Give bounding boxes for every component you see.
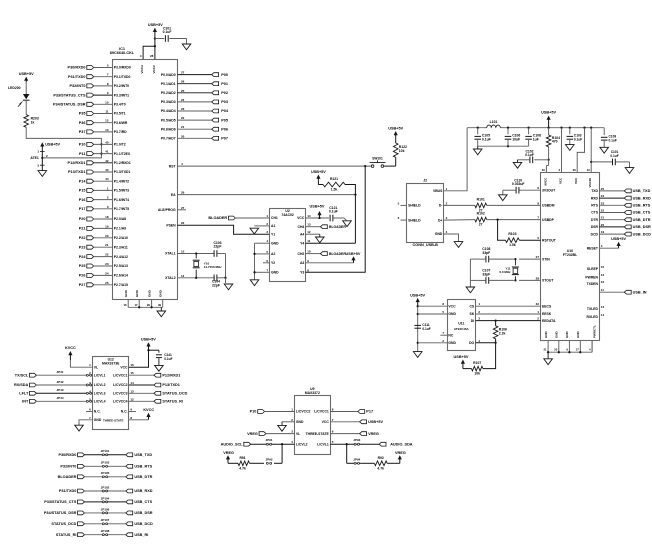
svg-text:P1.4/INT2: P1.4/INT2 [114, 179, 129, 183]
svg-text:15: 15 [181, 250, 185, 254]
svg-text:26: 26 [573, 168, 577, 172]
svg-text:R103: R103 [508, 232, 516, 236]
svg-text:JP92: JP92 [265, 457, 272, 461]
wire U12 GND [79, 420, 92, 425]
svg-text:USB_TXD: USB_TXD [134, 453, 152, 457]
svg-text:P07: P07 [221, 137, 228, 141]
svg-text:21: 21 [543, 348, 547, 352]
svg-text:12: 12 [601, 273, 605, 277]
port pin P32/INT0 [69, 82, 129, 88]
ground (C141) [155, 365, 164, 371]
svg-text:R101: R101 [477, 197, 485, 201]
pin U9.8 L/CVCC1 [314, 408, 333, 414]
pin U11 NC stub [440, 334, 447, 336]
svg-text:CH1: CH1 [271, 216, 278, 220]
svg-text:P25: P25 [79, 264, 86, 268]
svg-text:13: 13 [601, 305, 605, 309]
power symbol USB+5V (RESET) [611, 237, 626, 248]
svg-text:D+: D+ [438, 218, 442, 222]
svg-text:P03: P03 [221, 100, 228, 104]
svg-text:STATUS_RI: STATUS_RI [162, 400, 183, 404]
svg-text:USB_DTR: USB_DTR [633, 218, 651, 222]
pin U10 SLEEP [587, 265, 605, 271]
svg-text:RST: RST [169, 164, 177, 168]
tag P10 (U9) [250, 410, 295, 414]
svg-text:USB_DSR: USB_DSR [134, 511, 152, 515]
resistor R121 1.5k [318, 177, 345, 192]
svg-text:PSEN: PSEN [166, 223, 176, 227]
svg-text:CONN_USB-B: CONN_USB-B [413, 243, 439, 247]
svg-text:USB_CTS: USB_CTS [633, 211, 651, 215]
svg-text:22: 22 [181, 221, 185, 225]
wire U2 Y3 to RST [306, 166, 366, 272]
wire RST net [169, 162, 371, 168]
svg-text:11: 11 [105, 110, 109, 114]
power symbol USB+5V (EEPROM) [410, 293, 425, 306]
ground (IC1) [157, 307, 166, 317]
port pin P24 [79, 253, 128, 259]
svg-text:USB+5V: USB+5V [388, 126, 403, 130]
svg-text:L/CVL1: L/CVL1 [94, 373, 106, 377]
port pin P34/STATUS_DSR [53, 100, 126, 106]
pin U2.1 CH1 [266, 214, 278, 220]
svg-text:P3.1/TXD0: P3.1/TXD0 [114, 75, 131, 79]
IC U12 MAX3373E [93, 357, 129, 430]
wire U12 three-state [129, 419, 149, 421]
svg-text:USB+5V: USB+5V [148, 23, 163, 27]
svg-text:KVCC: KVCC [65, 346, 76, 350]
svg-text:N.C.: N.C. [121, 410, 128, 414]
svg-text:R107: R107 [473, 361, 481, 365]
svg-text:4.7k: 4.7k [377, 467, 384, 471]
power symbol USB+5V (U2 A3) [346, 252, 361, 263]
pin U9.7 VCC [322, 418, 334, 424]
svg-text:P34/STATUS_DSR: P34/STATUS_DSR [53, 103, 86, 107]
wire LED cathode to R203 [25, 100, 27, 114]
wire U2 Y4 to EA pull-up [306, 242, 356, 244]
svg-text:USB_TXD: USB_TXD [633, 189, 651, 193]
svg-text:P35: P35 [79, 112, 86, 116]
svg-text:R121: R121 [330, 177, 338, 181]
svg-text:LFLT: LFLT [19, 392, 29, 396]
svg-text:VREG: VREG [368, 432, 379, 436]
connector J2 CONN_USB-B [398, 178, 448, 247]
ground (U2 gnd) [250, 280, 259, 286]
wire xtal caps to ground [469, 259, 471, 287]
pin U12.2 L/CVL1 [89, 371, 105, 377]
svg-text:R91: R91 [239, 456, 245, 460]
wire AUDIO_SDA branch [346, 444, 348, 463]
svg-text:L/CVCC1: L/CVCC1 [113, 373, 128, 377]
IC IC1 89C6640 [110, 47, 178, 300]
svg-text:44: 44 [105, 177, 109, 181]
svg-text:XTAL1: XTAL1 [165, 252, 176, 256]
wire R121 to EA/Y4 [345, 185, 355, 244]
svg-text:KVCC: KVCC [143, 408, 154, 412]
port pin P00 [161, 71, 228, 77]
capacitor C104 22pF [212, 275, 226, 288]
wire AUDIO_SCL branch [281, 444, 283, 463]
port pin P37 [79, 128, 127, 134]
svg-text:GND: GND [147, 289, 151, 297]
svg-text:USB_DTR: USB_DTR [134, 475, 152, 479]
svg-text:CH2: CH2 [298, 252, 305, 256]
svg-text:GND: GND [448, 341, 456, 345]
tag AUDIO_SDA / jumper JP93 [330, 438, 413, 446]
svg-text:CH4: CH4 [298, 225, 305, 229]
wire U9 GND [282, 421, 295, 423]
svg-text:P31/TXD0: P31/TXD0 [68, 75, 86, 79]
svg-text:RXD: RXD [591, 196, 599, 200]
svg-text:6.0 MHz: 6.0 MHz [499, 270, 511, 274]
svg-text:VCCIO: VCCIO [588, 177, 592, 187]
port pin P25 [79, 262, 128, 268]
svg-text:17: 17 [134, 303, 138, 307]
svg-text:0.1uF: 0.1uF [329, 210, 338, 214]
wire EEPROM GND2 [418, 342, 447, 344]
ground (U2 A1) [250, 228, 259, 234]
svg-text:23: 23 [181, 107, 185, 111]
ground (EEPROM rail) [413, 352, 422, 358]
pin U12.1 VL [89, 363, 98, 369]
pin U10 RXLED [587, 313, 605, 319]
wire XTIN row [514, 258, 540, 260]
ground (J2) [454, 242, 463, 248]
svg-text:VBUS: VBUS [433, 189, 443, 193]
svg-text:P05: P05 [221, 118, 228, 122]
capacitor C108b 33pF [470, 247, 514, 262]
connector ATE1 [30, 149, 48, 171]
svg-text:P2.1/A9: P2.1/A9 [114, 227, 126, 231]
tag P12/RXD1 [129, 373, 180, 377]
svg-text:L/CVCC4: L/CVCC4 [113, 400, 128, 404]
svg-text:VREG: VREG [247, 432, 258, 436]
svg-text:EESK: EESK [542, 312, 552, 316]
svg-text:VCC: VCC [297, 216, 305, 220]
wire J2 GND [444, 234, 459, 242]
svg-text:P15: P15 [79, 189, 86, 193]
resistor R102 27 [444, 212, 541, 227]
pin GND group IC1 [123, 289, 162, 307]
svg-text:L/CVL3: L/CVL3 [94, 392, 106, 396]
svg-text:LED200: LED200 [8, 86, 21, 90]
svg-text:P2.5/A13: P2.5/A13 [114, 264, 128, 268]
pin U2.6 Y2 [266, 259, 275, 265]
svg-text:VCC2: VCC2 [152, 65, 156, 74]
svg-text:USB_RXD: USB_RXD [134, 489, 152, 493]
pin U2.2 A1 [266, 222, 275, 228]
capacitor C141 0.1uF [156, 350, 173, 365]
svg-text:1uF: 1uF [533, 137, 539, 141]
svg-text:P3.7/RD: P3.7/RD [114, 130, 127, 134]
svg-text:JP94: JP94 [353, 457, 360, 461]
jumper JP107 (STATUS_DCD to USB_DCD) [51, 518, 153, 526]
power symbol USB+5V (U12 VCC) [141, 338, 156, 351]
svg-text:P0.6/AD6: P0.6/AD6 [161, 127, 176, 131]
svg-text:USB_RI: USB_RI [134, 533, 148, 537]
svg-text:1.5k: 1.5k [331, 188, 338, 192]
svg-text:P11: P11 [79, 152, 86, 156]
svg-text:USB+5V: USB+5V [611, 237, 626, 241]
pin U10 XTOUT [536, 276, 555, 282]
pin U2.10 CH2 [298, 250, 311, 256]
svg-text:USB+5V: USB+5V [310, 204, 325, 208]
svg-text:P10: P10 [79, 143, 86, 147]
power symbol USB+5V (R122) [388, 126, 403, 143]
svg-text:JP43: JP43 [56, 388, 63, 392]
tag VREG (U9 TS) [330, 432, 379, 436]
svg-text:P0.3/AD3: P0.3/AD3 [161, 100, 176, 104]
svg-text:10: 10 [307, 250, 311, 254]
wire VCC pin 3 [558, 128, 561, 173]
ground (C101) [182, 44, 191, 50]
svg-text:26: 26 [181, 80, 185, 84]
pin U9.5 L/CVL1 [317, 440, 334, 446]
port pin P17 [79, 205, 129, 211]
pin U9.3 VL [291, 430, 300, 436]
svg-text:USB+5V: USB+5V [454, 355, 469, 359]
svg-text:P22: P22 [79, 236, 86, 240]
capacitor C107b 0.1uF (VCCIO) [591, 150, 629, 168]
svg-text:ALE/PROG: ALE/PROG [158, 208, 176, 212]
svg-text:L/CVCC2: L/CVCC2 [113, 383, 128, 387]
svg-text:EECS: EECS [542, 304, 552, 308]
svg-text:SK: SK [469, 312, 474, 316]
power symbol KVCC (U12 VL) [65, 346, 76, 360]
svg-text:21: 21 [105, 243, 109, 247]
crystal Y10 14.7456 MHz [193, 254, 222, 278]
svg-text:22: 22 [181, 116, 185, 120]
svg-text:AUDIO_SCL: AUDIO_SCL [221, 442, 244, 446]
pin U10 RXD [591, 194, 605, 200]
wire EEPROM GND1 [418, 313, 447, 315]
port pin P31/TXD0 [68, 73, 131, 79]
svg-text:P2.0/A8: P2.0/A8 [114, 217, 126, 221]
svg-text:PWREN: PWREN [585, 275, 598, 279]
svg-text:14: 14 [601, 313, 605, 317]
svg-text:0.1uF: 0.1uF [525, 153, 534, 157]
svg-text:74AC02: 74AC02 [281, 213, 294, 217]
svg-text:P23: P23 [79, 245, 86, 249]
svg-text:P0.5/AD5: P0.5/AD5 [161, 118, 176, 122]
svg-text:P12/RXD1: P12/RXD1 [68, 161, 86, 165]
LED LED200 [8, 86, 29, 107]
wire VBUS to rail [444, 128, 467, 191]
ground (C102) [513, 160, 522, 168]
jumper JP106 (P34/STATUS_DSR to USB_DSR) [44, 507, 153, 515]
svg-text:10: 10 [105, 100, 109, 104]
svg-text:20: 20 [181, 134, 185, 138]
svg-text:23: 23 [105, 262, 109, 266]
svg-text:P33/STATUS_CTS: P33/STATUS_CTS [44, 500, 77, 504]
pin U9.6 THREE-STATE [306, 430, 334, 436]
svg-text:DTR: DTR [591, 218, 599, 222]
pin U12.12 L/CVCC4 [113, 397, 134, 403]
svg-text:P00: P00 [221, 73, 228, 77]
svg-text:P33/STATUS_CTS: P33/STATUS_CTS [53, 93, 86, 97]
svg-text:USB+5V: USB+5V [368, 420, 383, 424]
svg-text:CS: CS [469, 304, 474, 308]
svg-text:P31/TXD0: P31/TXD0 [59, 489, 77, 493]
pin U12 NC stub right [129, 411, 136, 413]
ground (crystal) [224, 278, 233, 290]
svg-text:RX/SDA: RX/SDA [14, 383, 29, 387]
svg-text:P0.7/AD7: P0.7/AD7 [161, 137, 176, 141]
power symbol VREG (R92) [395, 451, 406, 464]
capacitor C107 33pF [470, 269, 514, 284]
svg-text:14: 14 [181, 274, 185, 278]
svg-text:0.1uF: 0.1uF [610, 154, 618, 158]
power symbol USB+5V (R107) [454, 355, 469, 368]
wire U2 VCC row [306, 217, 329, 219]
svg-text:JP106: JP106 [101, 507, 110, 511]
svg-text:USB+5V: USB+5V [541, 111, 556, 115]
svg-text:P32/INT0: P32/INT0 [60, 465, 76, 469]
svg-text:P2.4/A12: P2.4/A12 [114, 255, 128, 259]
svg-text:P1.3/TXD1: P1.3/TXD1 [114, 170, 131, 174]
port pin P02 [161, 89, 228, 95]
svg-text:P24: P24 [79, 255, 87, 259]
pin U2.6 Y2 stub [263, 262, 270, 264]
svg-text:40: 40 [105, 140, 109, 144]
pin U9.1 L/CVCC2 [291, 408, 310, 414]
pin GND group U10 [543, 325, 596, 352]
svg-text:VL: VL [94, 365, 98, 369]
svg-text:AT93C46A: AT93C46A [454, 327, 470, 331]
port pin P11 [79, 150, 131, 156]
svg-text:RXLED: RXLED [587, 315, 599, 319]
svg-text:P16: P16 [79, 198, 86, 202]
svg-text:USB_RTS: USB_RTS [134, 465, 152, 469]
power symbol USB+5V (IC1) [148, 23, 163, 59]
wire R203 to P10/P11 column [26, 127, 102, 159]
svg-text:USB_DSR: USB_DSR [633, 225, 651, 229]
wire EEPROM VCC [418, 305, 447, 307]
svg-text:0.1uF: 0.1uF [609, 138, 617, 142]
svg-text:JP104: JP104 [101, 496, 110, 500]
pin U10 DTR [591, 216, 604, 222]
svg-text:USB+5V: USB+5V [346, 252, 361, 256]
tag RX/SDA / jumper JP42 [14, 380, 92, 387]
svg-text:GND: GND [94, 418, 102, 422]
svg-text:P20: P20 [79, 217, 86, 221]
tag USB_RXD [599, 196, 651, 200]
svg-text:30: 30 [542, 168, 546, 172]
ground (ATE1) [38, 171, 47, 177]
pin U10 PWREN [585, 273, 604, 279]
svg-text:24: 24 [105, 271, 109, 275]
svg-text:P2.3/A11: P2.3/A11 [114, 245, 128, 249]
svg-text:41: 41 [105, 150, 109, 154]
port pin P06 [161, 125, 228, 131]
svg-text:JP101: JP101 [101, 449, 110, 453]
power symbol USB+5V (rail) [541, 111, 556, 128]
svg-text:42: 42 [105, 159, 109, 163]
tag BLOADER (U2 pin1) [208, 216, 269, 220]
svg-text:13: 13 [130, 389, 134, 393]
IC U2 74AC02 [270, 209, 306, 282]
svg-text:P1.6/INT4: P1.6/INT4 [114, 198, 129, 202]
svg-text:27: 27 [479, 223, 483, 227]
pin U12.15 L/CVCC1 [113, 371, 134, 377]
svg-text:DSR: DSR [591, 225, 599, 229]
svg-text:GND: GND [544, 331, 548, 339]
svg-text:USB_DCD: USB_DCD [134, 522, 153, 526]
svg-text:SW101: SW101 [372, 157, 383, 161]
svg-text:0.033uF: 0.033uF [512, 182, 525, 186]
svg-text:STATUS_DCD: STATUS_DCD [162, 392, 187, 396]
pin U10 3V3OUT [537, 186, 556, 192]
capacitor C109 0.1uF [601, 128, 617, 148]
port pin P30/RXD0 [68, 64, 131, 70]
svg-text:J2: J2 [423, 178, 427, 182]
pin U10 USBDM [537, 201, 554, 207]
svg-text:16: 16 [123, 303, 127, 307]
svg-text:0.1uF: 0.1uF [482, 137, 491, 141]
svg-text:VCC: VCC [559, 177, 563, 184]
port pin P27 [79, 281, 128, 287]
svg-text:P3.6/WR: P3.6/WR [114, 121, 128, 125]
resistor R107 10k [463, 343, 496, 376]
tag TX/SCL / jumper JP41 [15, 370, 93, 377]
svg-text:29: 29 [181, 191, 185, 195]
svg-text:14: 14 [307, 214, 311, 218]
tag USB+5V (U9 VCC) [330, 420, 383, 424]
svg-text:USB+5V: USB+5V [45, 142, 60, 146]
switch SW101 [370, 157, 396, 168]
svg-text:JP42: JP42 [56, 380, 63, 384]
port pin P12/RXD1 [68, 159, 131, 165]
wire RESET pullup [599, 247, 618, 249]
port pin P16 [79, 196, 129, 202]
svg-text:P3.4/T0: P3.4/T0 [114, 103, 126, 107]
jumper JP108 (STATUS_RI to USB_RI) [56, 529, 148, 537]
resistor R103 1.5k [498, 220, 541, 248]
tag VREG (U9 VL) [247, 432, 294, 436]
ground (U10) [544, 352, 553, 364]
power symbol USB+5V (R121) [311, 170, 326, 185]
svg-text:PWRCTL: PWRCTL [592, 325, 596, 338]
svg-text:THREE-STATE: THREE-STATE [306, 432, 330, 436]
svg-text:USB_RXD: USB_RXD [633, 196, 651, 200]
wire crystal caps to ground [224, 254, 226, 279]
svg-text:P30/RXD0: P30/RXD0 [68, 66, 86, 70]
pin ALE/PROG [158, 206, 186, 212]
tag USB_DCD [599, 232, 651, 236]
svg-text:USB+5V: USB+5V [410, 293, 425, 297]
ground (U9) [278, 422, 287, 431]
svg-text:P04: P04 [221, 109, 229, 113]
capacitor C110 0.033uF [503, 178, 541, 194]
svg-text:39: 39 [158, 303, 162, 307]
svg-text:GND: GND [435, 232, 443, 236]
svg-text:NC: NC [448, 333, 453, 337]
svg-text:12: 12 [105, 119, 109, 123]
power symbol USB+5V (ATE1) [40, 142, 60, 148]
pin U12.9 N.C. [121, 408, 133, 414]
svg-text:JP103: JP103 [101, 461, 110, 465]
svg-text:20: 20 [554, 348, 558, 352]
svg-text:USB_DCD: USB_DCD [633, 232, 652, 236]
pin U10 RSTOUT [537, 236, 556, 242]
IC U9 MAX3372 [295, 387, 331, 454]
svg-text:BLOADER: BLOADER [58, 475, 77, 479]
svg-text:25: 25 [181, 89, 185, 93]
ground (C103b) [566, 145, 575, 151]
svg-text:21: 21 [181, 125, 185, 129]
svg-text:GND: GND [135, 289, 139, 297]
svg-text:43: 43 [105, 168, 109, 172]
